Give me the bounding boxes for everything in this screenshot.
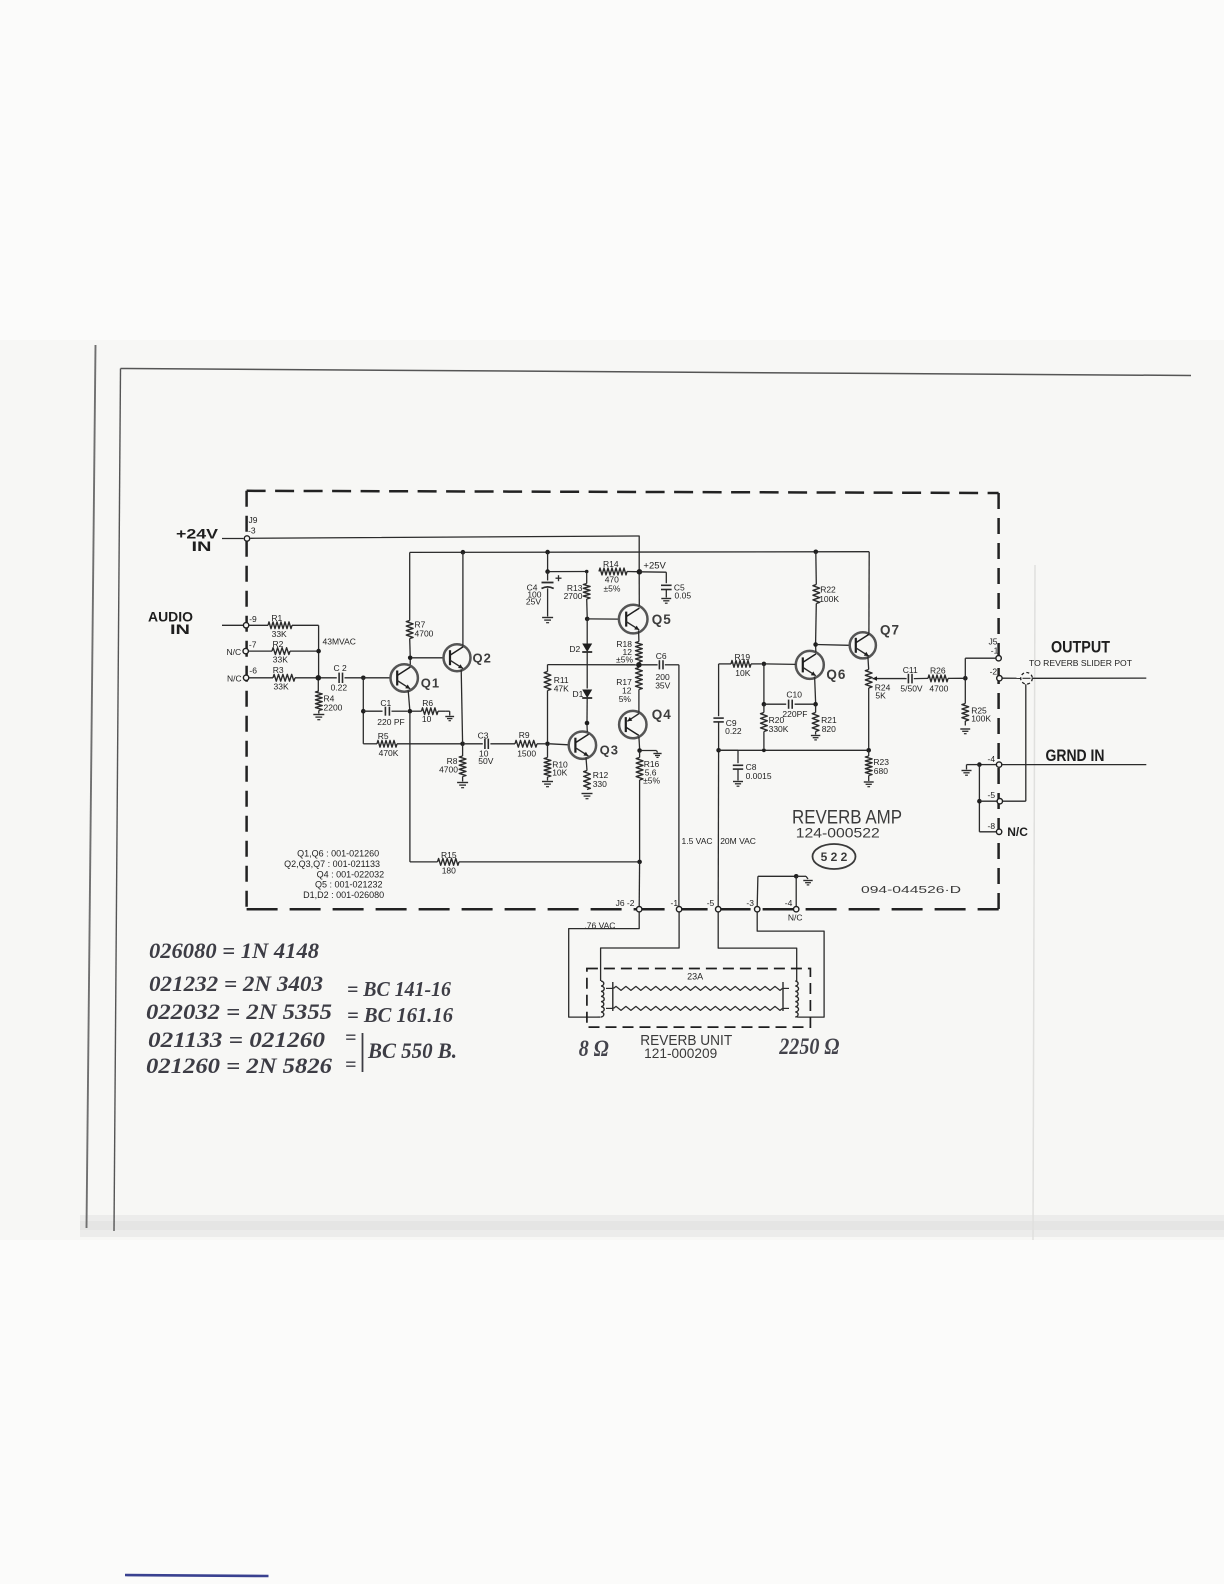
label OUTPUT xyxy=(1051,639,1110,657)
diode D1 xyxy=(573,689,593,721)
resistor R25 xyxy=(962,678,991,725)
svg-text:33K: 33K xyxy=(272,629,287,639)
svg-text:330: 330 xyxy=(593,779,607,789)
ground R8 xyxy=(457,783,468,788)
node R9-R10-Q3B xyxy=(545,742,550,747)
ground C5 xyxy=(661,599,671,604)
node Q3C-D1-Q4B xyxy=(585,721,590,726)
svg-text:4700: 4700 xyxy=(439,764,458,774)
wire grnd line xyxy=(1002,764,1146,766)
dashed border left xyxy=(245,491,248,909)
label J6-2 xyxy=(616,898,635,908)
handwritten line5 xyxy=(146,1053,356,1078)
resistor R16 xyxy=(636,751,660,861)
svg-text:-8: -8 xyxy=(988,821,996,831)
wire Q1 base xyxy=(363,677,390,679)
wire mid rail xyxy=(548,664,637,666)
svg-text:R1: R1 xyxy=(271,613,282,623)
ground C4 xyxy=(542,618,553,623)
ground GRND IN xyxy=(962,771,972,776)
label N/C pin6 xyxy=(227,674,242,684)
svg-text:N/C: N/C xyxy=(227,647,242,657)
resistor R12 xyxy=(584,770,609,789)
node R26-R25 xyxy=(963,676,968,681)
label J6-1 xyxy=(671,898,679,908)
transistor Q4 xyxy=(619,707,672,738)
node grnd xyxy=(977,762,982,767)
svg-text:2700: 2700 xyxy=(564,591,583,601)
svg-text:C11: C11 xyxy=(903,665,918,675)
spring top xyxy=(614,986,783,990)
svg-text:1500: 1500 xyxy=(517,749,536,759)
wire +24V feed xyxy=(250,536,639,572)
svg-text:N/C: N/C xyxy=(227,674,242,684)
svg-text:Q2: Q2 xyxy=(473,651,492,666)
resistor R17 xyxy=(616,668,642,704)
label REVERB UNIT xyxy=(640,1032,732,1049)
svg-text:J6 -2: J6 -2 xyxy=(616,898,635,908)
svg-text:10K: 10K xyxy=(735,668,750,678)
svg-text:±5%: ±5% xyxy=(643,776,660,786)
wire J6 gnd stub xyxy=(796,876,808,879)
pin J5-4 xyxy=(988,754,1002,767)
resistor R13 xyxy=(564,572,591,617)
label N/C J6-4 xyxy=(788,913,803,923)
wire J6-5 to coil xyxy=(718,912,797,977)
title part number xyxy=(796,825,880,841)
resistor R26 xyxy=(928,665,963,693)
wire +24V stub xyxy=(222,538,244,540)
wire J5-2 to jack xyxy=(1003,677,1021,679)
resistor R11 xyxy=(544,665,569,742)
transistor Q1 xyxy=(391,664,441,691)
wire C9 to J6-5 xyxy=(717,753,719,907)
ground R10 xyxy=(542,782,553,787)
svg-text:124-000522: 124-000522 xyxy=(796,825,880,841)
wire to J5-1 xyxy=(965,658,995,678)
svg-text:C3: C3 xyxy=(478,730,489,740)
svg-text:180: 180 xyxy=(442,865,456,875)
transducer coil left xyxy=(598,978,605,1018)
wire J5-5 right xyxy=(1003,800,1026,802)
pin J5-1 xyxy=(991,646,1002,661)
svg-text:Q5 : 001-021232: Q5 : 001-021232 xyxy=(315,880,383,890)
wire Q2 emitter xyxy=(461,670,462,744)
label N/C pin7 xyxy=(227,647,242,657)
resistor R23 xyxy=(865,750,889,781)
node R13 corner xyxy=(585,570,589,574)
svg-text:0.05: 0.05 xyxy=(675,591,692,601)
svg-text:D2: D2 xyxy=(569,644,580,654)
pin J9-6 xyxy=(243,666,257,681)
svg-text:-3: -3 xyxy=(746,898,754,908)
wire R24 bottom xyxy=(868,688,870,748)
wire feedback bottom xyxy=(719,749,867,751)
svg-text:100K: 100K xyxy=(971,714,991,724)
node Q4C-R16 xyxy=(637,748,642,753)
frame top line xyxy=(121,369,1192,376)
label J6-3 xyxy=(746,898,754,908)
svg-text:23A: 23A xyxy=(687,972,703,982)
capacitor C4 xyxy=(526,572,562,617)
svg-text:-9: -9 xyxy=(249,614,257,624)
pin J5-8 xyxy=(988,821,1002,835)
svg-text:5%: 5% xyxy=(619,694,632,704)
node Q6C-Q7B xyxy=(813,642,818,647)
pin J5-5 xyxy=(988,790,1003,804)
capacitor C6 xyxy=(641,651,679,690)
outer page edge line xyxy=(87,345,96,1228)
svg-text:OUTPUT: OUTPUT xyxy=(1051,639,1110,657)
svg-text:10K: 10K xyxy=(552,768,567,778)
svg-text:C6: C6 xyxy=(656,651,667,661)
svg-text:Q2,Q3,Q7 : 001-021133: Q2,Q3,Q7 : 001-021133 xyxy=(284,859,380,869)
label AUDIO IN xyxy=(148,610,193,638)
svg-text:33K: 33K xyxy=(274,681,289,691)
node R19-Q6B xyxy=(762,662,767,667)
spring bottom xyxy=(614,1006,783,1010)
svg-text:=: = xyxy=(345,1027,356,1049)
frame left line xyxy=(114,369,121,1232)
wire Q1 emitter xyxy=(408,691,410,712)
svg-text:10: 10 xyxy=(422,714,432,724)
svg-text:20M VAC: 20M VAC xyxy=(720,836,756,846)
resistor R19 xyxy=(719,652,762,678)
node C10 left xyxy=(762,702,767,707)
drawing number 094-044526-D xyxy=(861,884,962,896)
node R3-bus xyxy=(316,675,322,681)
resistor R10 xyxy=(544,744,568,781)
svg-text:R9: R9 xyxy=(519,730,530,740)
resistor R15 xyxy=(410,714,638,876)
wire R19 node down xyxy=(763,664,765,702)
svg-text:5/50V: 5/50V xyxy=(900,684,923,694)
wire R13 top link xyxy=(548,571,587,573)
diode D2 xyxy=(569,619,592,689)
jack tip symbol xyxy=(1021,673,1033,685)
label 23A xyxy=(687,972,703,982)
wire +25V rail xyxy=(410,551,870,554)
handwritten 2250 ohm xyxy=(778,1034,839,1059)
svg-text:2250 Ω: 2250 Ω xyxy=(778,1034,839,1059)
svg-text:021232 = 2N 3403: 021232 = 2N 3403 xyxy=(149,971,323,996)
pin J6-5 xyxy=(716,907,721,912)
ground R23 xyxy=(864,782,874,787)
pin J9-3 xyxy=(244,536,249,541)
capacitor C8 xyxy=(719,750,772,781)
handwritten line4 xyxy=(148,1027,356,1052)
wire R16 to J6-2 xyxy=(638,862,640,906)
svg-text:Q7: Q7 xyxy=(880,623,900,638)
svg-text:Q3: Q3 xyxy=(600,743,619,758)
pin J6-2 xyxy=(637,907,642,912)
svg-text:8 Ω: 8 Ω xyxy=(579,1036,609,1061)
resistor R7 xyxy=(406,552,433,655)
svg-text:-3: -3 xyxy=(248,526,256,536)
svg-text:121-000209: 121-000209 xyxy=(644,1046,717,1061)
svg-text:±5%: ±5% xyxy=(604,583,621,593)
handwritten line3 xyxy=(146,999,453,1027)
label +24V IN xyxy=(176,527,218,555)
svg-text:-6: -6 xyxy=(249,666,257,676)
svg-text:+25V: +25V xyxy=(643,561,666,572)
wire Q7 base xyxy=(816,644,850,647)
wire jack sleeve down xyxy=(1025,684,1027,801)
handwritten 8 ohm xyxy=(579,1036,609,1061)
capacitor C1 xyxy=(363,698,407,727)
node R5-R8-Q2E xyxy=(460,742,465,747)
node R2-bus xyxy=(316,649,321,654)
svg-text:5K: 5K xyxy=(875,691,886,701)
svg-text:330K: 330K xyxy=(769,724,789,734)
resistor R6 xyxy=(412,698,450,724)
resistor R20 xyxy=(761,704,789,748)
wire Q6 base xyxy=(764,663,796,666)
svg-text:35V: 35V xyxy=(655,681,670,691)
capacitor C2 xyxy=(331,663,361,693)
wire Q5 collector xyxy=(638,574,640,606)
node rail-C4 xyxy=(545,550,550,555)
svg-text:2200: 2200 xyxy=(324,703,343,713)
svg-text:4700: 4700 xyxy=(415,629,434,639)
wire J6-1 to coil xyxy=(601,912,680,977)
pin J6-4 xyxy=(794,907,799,912)
wire Q1 collector xyxy=(409,658,411,665)
label .76VAC xyxy=(584,921,615,931)
resistor R18 xyxy=(616,639,642,665)
ground R21 xyxy=(811,736,820,740)
svg-text:Q4: Q4 xyxy=(652,707,672,722)
resistor R5 xyxy=(363,731,460,758)
wiper arrow R24 xyxy=(873,676,906,681)
svg-text:680: 680 xyxy=(874,766,888,776)
svg-text:43MVAC: 43MVAC xyxy=(323,636,356,646)
spring stub right xyxy=(783,988,790,1008)
wire Q5 emitter xyxy=(638,631,640,642)
svg-text:N/C: N/C xyxy=(1007,825,1028,839)
svg-text:50V: 50V xyxy=(478,756,493,766)
ground C8 xyxy=(733,782,743,787)
svg-text:220PF: 220PF xyxy=(782,709,807,719)
node C10 right xyxy=(813,702,818,707)
reverb unit dashed box xyxy=(587,969,811,1028)
resistor R4 xyxy=(315,691,342,714)
ground R4 xyxy=(313,715,324,720)
svg-text:220 PF: 220 PF xyxy=(377,717,404,727)
spring end bar right xyxy=(782,982,784,1011)
node C9-C8 xyxy=(716,748,721,753)
node C4-R13 xyxy=(545,569,550,574)
node rail-R22 xyxy=(814,550,819,555)
wire Q7 emitter xyxy=(867,657,870,670)
label 121-000209 xyxy=(644,1046,717,1061)
svg-text:GRND IN: GRND IN xyxy=(1046,747,1105,765)
svg-text:IN: IN xyxy=(192,539,212,554)
capacitor C3 xyxy=(465,730,515,766)
dashed border right xyxy=(997,493,1000,909)
svg-text:N/C: N/C xyxy=(788,913,803,923)
svg-text:-4: -4 xyxy=(988,754,996,764)
wire Q3 collector xyxy=(586,725,588,732)
label 1.5VAC xyxy=(682,836,713,846)
transistor Q5 xyxy=(619,605,672,634)
svg-text:-2: -2 xyxy=(990,667,998,677)
node grnd-5 xyxy=(977,799,982,804)
page fold shadow band xyxy=(80,1215,1224,1237)
capacitor C5 xyxy=(639,572,691,601)
blue pen mark xyxy=(125,1575,269,1576)
wire J6-3 to coil xyxy=(757,912,824,1017)
vertical paper crease xyxy=(1033,565,1035,1240)
svg-text:= BC 161.16: = BC 161.16 xyxy=(347,1003,453,1027)
svg-text:33K: 33K xyxy=(273,655,288,665)
wire Q3 emitter xyxy=(586,758,587,771)
svg-text:0.22: 0.22 xyxy=(725,726,742,736)
svg-text:820: 820 xyxy=(822,724,836,734)
svg-text:IN: IN xyxy=(170,622,190,637)
label 43MVAC xyxy=(323,636,356,646)
wire Q4 collector xyxy=(638,737,641,749)
svg-text:= BC 141-16: = BC 141-16 xyxy=(347,977,451,1001)
node Q5 base xyxy=(585,617,590,622)
wire J6-2 to coil xyxy=(569,912,640,1017)
svg-text:094-044526·D: 094-044526·D xyxy=(861,884,962,896)
svg-text:1.5 VAC: 1.5 VAC xyxy=(682,836,713,846)
svg-text:C 2: C 2 xyxy=(334,663,348,673)
svg-text:Q1,Q6 : 001-021260: Q1,Q6 : 001-021260 xyxy=(297,849,379,859)
svg-text:R19: R19 xyxy=(735,652,751,662)
svg-text:C1: C1 xyxy=(380,698,391,708)
svg-text:R2: R2 xyxy=(273,639,284,649)
svg-text:026080 = 1N 4148: 026080 = 1N 4148 xyxy=(149,938,319,963)
transistor Q6 xyxy=(796,651,847,682)
svg-text:470K: 470K xyxy=(379,748,399,758)
wire output line xyxy=(1032,677,1146,679)
resistor R8 xyxy=(439,744,466,782)
svg-text:-4: -4 xyxy=(785,898,793,908)
wire C6 to J6-1 xyxy=(678,665,680,906)
ground Q4 node xyxy=(653,754,661,758)
transducer coil right xyxy=(795,978,799,1018)
revision ellipse 522 xyxy=(813,844,856,869)
svg-text:R3: R3 xyxy=(273,665,284,675)
svg-text:D1: D1 xyxy=(573,689,584,699)
wire input bus xyxy=(317,625,319,691)
label 20MVAC xyxy=(720,836,756,846)
pin J9-9 xyxy=(243,614,257,628)
ground R6 xyxy=(445,717,454,721)
label N/C J5-8 xyxy=(1007,825,1028,839)
wire J6 gnd to -4 xyxy=(795,876,797,906)
handwritten bracket xyxy=(362,1033,364,1072)
wire grnd stub left xyxy=(982,764,997,766)
transistor Q7 xyxy=(850,623,900,659)
wire rail to C4node xyxy=(547,552,549,572)
label TO REVERB SLIDER POT xyxy=(1029,658,1133,668)
svg-text:R5: R5 xyxy=(378,731,389,741)
svg-text:TO REVERB SLIDER POT: TO REVERB SLIDER POT xyxy=(1029,658,1133,668)
svg-text:021133 = 021260: 021133 = 021260 xyxy=(148,1027,325,1052)
node R20 bottom xyxy=(762,748,766,752)
spring end bar left xyxy=(612,982,614,1011)
svg-text:R6: R6 xyxy=(422,698,433,708)
wire Q6 emitter xyxy=(815,677,816,703)
svg-text:R15: R15 xyxy=(441,850,457,860)
svg-text:=: = xyxy=(345,1054,356,1076)
svg-text:Q6: Q6 xyxy=(826,667,846,682)
transistor Q2 xyxy=(444,644,492,671)
wire Q7 collector xyxy=(868,552,870,634)
label J6-5 xyxy=(707,898,715,908)
handwritten line2 xyxy=(149,971,451,1001)
wire audio stub xyxy=(222,624,243,626)
pin J6-1 xyxy=(676,907,681,912)
wire Q6 collector xyxy=(815,647,817,653)
svg-text:-7: -7 xyxy=(249,640,257,650)
resistor R14 xyxy=(599,559,637,593)
svg-text:R26: R26 xyxy=(930,665,946,675)
svg-text:±5%: ±5% xyxy=(616,654,633,664)
handwritten BC550B xyxy=(367,1038,457,1063)
wire C2node down xyxy=(362,678,364,744)
node output mid xyxy=(636,662,642,668)
label J5 xyxy=(989,637,998,647)
svg-text:R14: R14 xyxy=(603,559,619,569)
title REVERB AMP xyxy=(792,807,902,829)
svg-text:100K: 100K xyxy=(819,594,839,604)
spring stub left xyxy=(606,988,614,1008)
resistor R21 xyxy=(812,704,837,734)
ground J6 xyxy=(803,881,812,885)
node R24-R23 xyxy=(866,748,871,753)
svg-text:-5: -5 xyxy=(707,898,715,908)
node +25V xyxy=(637,569,643,575)
label J6-4 xyxy=(785,898,793,908)
resistor R3 xyxy=(249,665,337,692)
label +25V xyxy=(643,561,666,572)
ground R12 xyxy=(582,794,593,799)
svg-text:5 2 2: 5 2 2 xyxy=(821,850,848,864)
resistor R1 xyxy=(249,613,319,639)
pin J6-3 xyxy=(755,907,760,912)
pin J5-2 xyxy=(990,667,1003,681)
wire Q5 base xyxy=(587,618,618,620)
svg-text:R22: R22 xyxy=(820,585,836,595)
svg-text:D1,D2 : 001-026080: D1,D2 : 001-026080 xyxy=(303,890,384,900)
svg-text:Q1: Q1 xyxy=(421,676,440,691)
wire J6-3 up xyxy=(757,876,794,906)
wire grnd down xyxy=(978,765,980,832)
connector J9 label xyxy=(248,515,258,536)
node J6 gnd xyxy=(794,874,799,879)
label GRND IN xyxy=(1046,747,1105,765)
svg-text:022032 = 2N 5355: 022032 = 2N 5355 xyxy=(146,999,332,1024)
wire Q2 base xyxy=(412,657,443,659)
node C2-Q1base xyxy=(361,676,366,681)
capacitor C9 xyxy=(713,664,742,748)
wire R16 gnd stub xyxy=(640,751,658,753)
svg-text:4700: 4700 xyxy=(929,684,948,694)
node rail-Q2 xyxy=(461,550,466,555)
svg-text:0.0015: 0.0015 xyxy=(746,771,772,781)
transistor Q3 xyxy=(569,732,619,759)
svg-text:-5: -5 xyxy=(988,790,996,800)
wire Q3 base xyxy=(550,744,569,745)
wire to J5-5 xyxy=(979,800,996,802)
dashed border top xyxy=(247,491,999,493)
resistor R22 xyxy=(813,552,839,643)
svg-text:C10: C10 xyxy=(786,690,802,700)
